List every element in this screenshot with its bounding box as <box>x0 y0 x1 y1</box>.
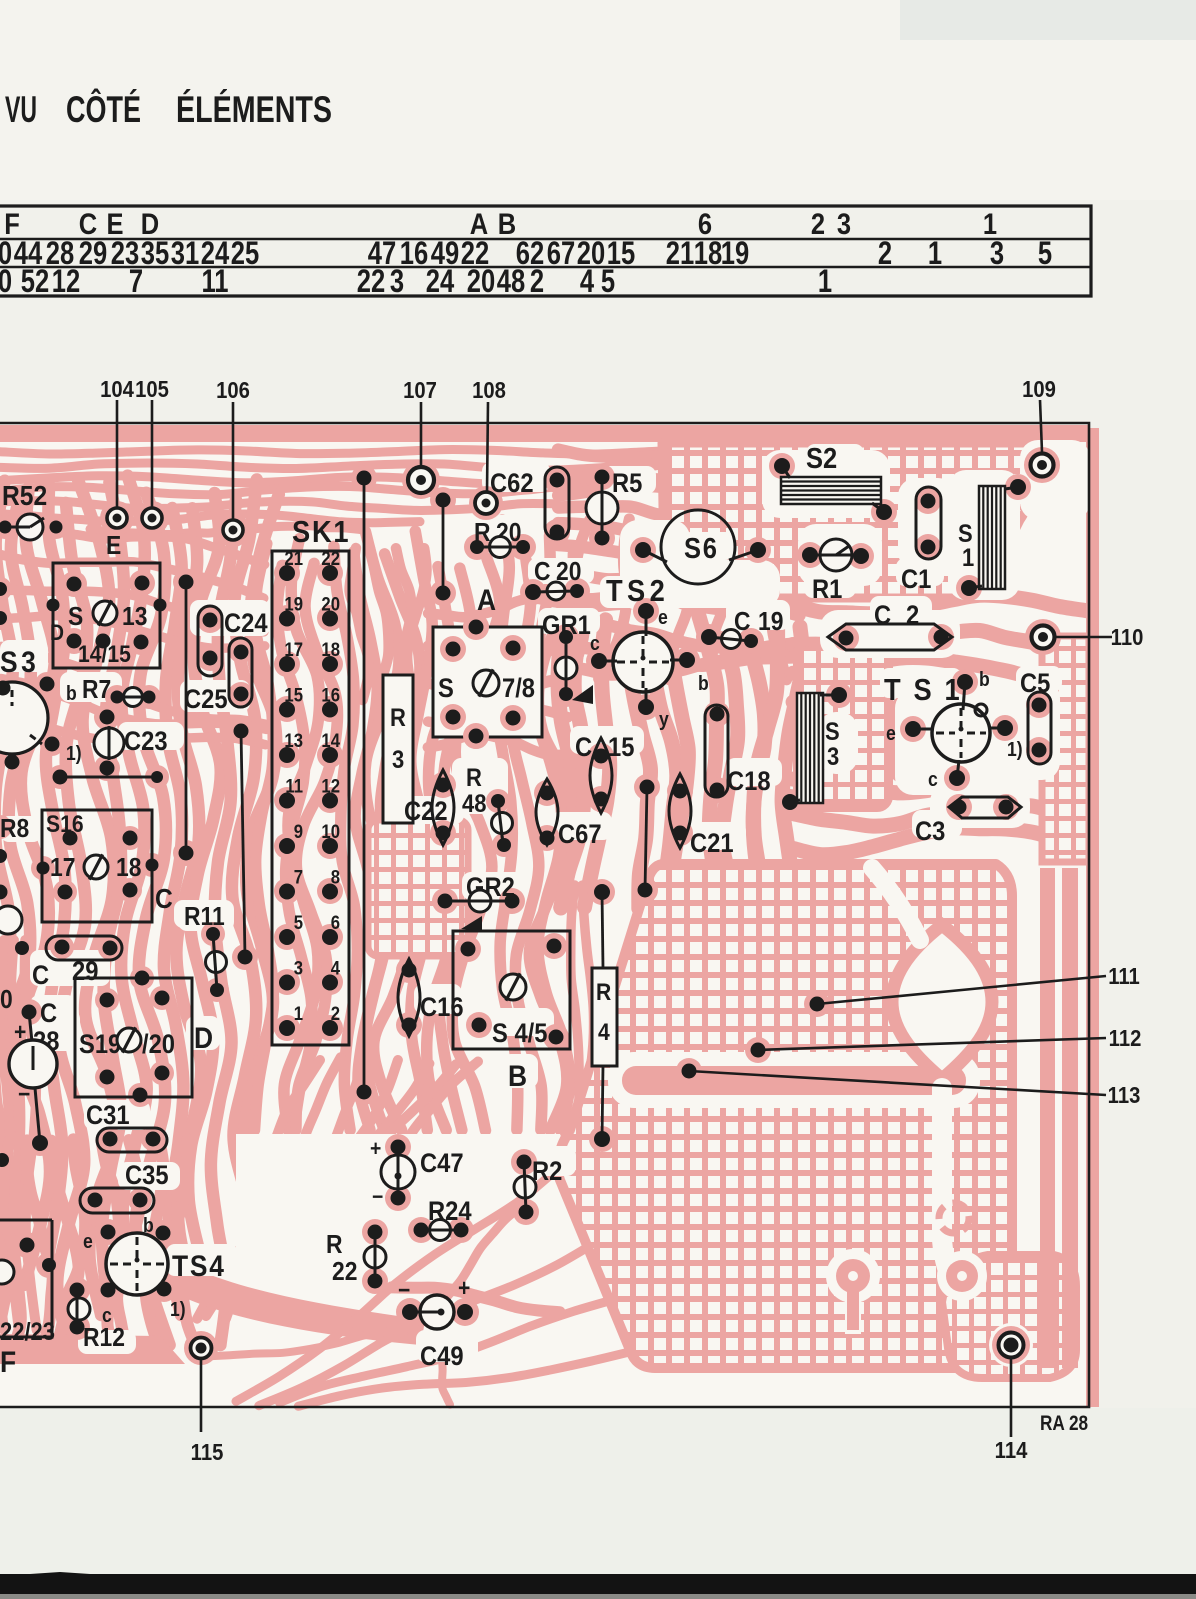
copper trace bundle: centre vertical traces <box>255 544 274 1130</box>
svg-text:C49: C49 <box>420 1342 464 1372</box>
svg-text:12: 12 <box>321 776 340 797</box>
resistor R4 <box>592 884 617 1147</box>
capacitor C24 <box>198 606 268 676</box>
svg-text:4: 4 <box>331 958 340 979</box>
capacitor C62 <box>490 467 569 540</box>
svg-text:A: A <box>477 582 496 616</box>
svg-text:5: 5 <box>294 912 303 933</box>
svg-text:B: B <box>498 207 516 240</box>
svg-text:2: 2 <box>811 207 825 240</box>
pad 105 <box>142 400 162 528</box>
capacitor C28 <box>9 999 59 1151</box>
diode GR1 <box>542 611 593 704</box>
svg-text:b: b <box>143 1214 154 1236</box>
table row 2 numbers <box>0 236 1052 271</box>
capacitor C47 <box>370 1137 464 1209</box>
svg-text:19: 19 <box>284 594 303 615</box>
svg-text:12: 12 <box>52 264 80 299</box>
svg-text:R: R <box>596 979 611 1006</box>
pad 104 <box>107 400 127 528</box>
label A <box>477 582 496 616</box>
keyhole pad in ground plane 2 <box>937 1251 987 1301</box>
capacitor C21 <box>669 774 734 858</box>
capacitor C3 <box>915 797 1021 846</box>
svg-text:2: 2 <box>878 236 892 271</box>
svg-text:0: 0 <box>0 264 12 299</box>
title VU COTE ELEMENTS <box>5 88 332 130</box>
svg-text:1: 1 <box>818 264 832 299</box>
transistor S3 (TS3) <box>0 621 64 770</box>
wire long vertical a <box>179 575 194 861</box>
pad 110 <box>1032 626 1113 649</box>
left edge trace dots <box>0 582 9 1167</box>
wire to SK1 area <box>234 724 253 965</box>
svg-text:c: c <box>590 632 600 654</box>
transistor TS2 <box>590 574 709 730</box>
copper ground plane grid: TS1 surrounding <box>797 642 889 808</box>
connector box D S19/20 <box>75 971 213 1103</box>
PCB board area <box>0 423 1089 1407</box>
svg-text:R2: R2 <box>532 1157 562 1187</box>
svg-text:3: 3 <box>390 264 404 299</box>
svg-text:R11: R11 <box>184 903 225 932</box>
callout label 115 <box>191 1439 224 1466</box>
copper pour: bottom left band <box>0 1334 185 1364</box>
svg-text:105: 105 <box>135 376 169 403</box>
callout label 109 <box>1022 376 1056 403</box>
svg-text:52: 52 <box>21 264 49 299</box>
svg-text:48: 48 <box>462 790 486 818</box>
svg-text:e: e <box>83 1230 93 1252</box>
pad 113 and leader <box>682 1064 1107 1096</box>
white areas around components in grid zones <box>762 450 890 518</box>
capacitor C67 <box>536 779 602 849</box>
svg-text:−: − <box>398 1277 410 1304</box>
capacitor C35 <box>80 1161 169 1213</box>
callout label 113 <box>1108 1082 1141 1109</box>
callout label 105 <box>135 376 169 403</box>
svg-text:R: R <box>390 704 406 732</box>
capacitor C1 <box>901 487 941 594</box>
svg-text:19: 19 <box>721 236 749 271</box>
callout label 114 <box>995 1437 1028 1464</box>
svg-text:1): 1) <box>1007 738 1023 760</box>
callout label 110 <box>1111 624 1144 651</box>
scanner edge shadow <box>0 1574 1196 1594</box>
capacitor C2 <box>828 601 952 650</box>
svg-text:108: 108 <box>472 377 506 404</box>
copper trace bundle: upper middle organic region <box>558 447 800 457</box>
resistor R1 <box>802 539 869 604</box>
svg-text:3: 3 <box>990 236 1004 271</box>
svg-text:10: 10 <box>321 821 340 842</box>
resistor R7 <box>66 676 156 707</box>
white halos under labels <box>0 444 1062 1362</box>
svg-text:29: 29 <box>79 236 107 271</box>
capacitor C15 <box>575 733 634 813</box>
coil S3b <box>782 687 847 810</box>
resistor R3 <box>383 675 413 823</box>
svg-text:11: 11 <box>201 264 228 299</box>
svg-text:11: 11 <box>285 776 303 797</box>
svg-text:104: 104 <box>100 376 134 403</box>
resistor R24 <box>414 1197 472 1241</box>
svg-text:13: 13 <box>284 730 303 751</box>
copper pour: board edge strip right <box>1086 428 1099 1407</box>
svg-text:C16: C16 <box>420 993 464 1023</box>
svg-text:13: 13 <box>122 603 147 632</box>
svg-text:1: 1 <box>294 1003 303 1024</box>
svg-text:R12: R12 <box>83 1324 125 1353</box>
svg-text:22: 22 <box>321 548 340 569</box>
svg-text:CÔTÉ: CÔTÉ <box>66 88 141 130</box>
svg-text:1): 1) <box>66 742 82 764</box>
svg-text:17: 17 <box>284 639 303 660</box>
svg-text:106: 106 <box>216 377 250 404</box>
svg-text:20: 20 <box>321 594 340 615</box>
transistor TS1 <box>884 668 1023 790</box>
svg-text:b: b <box>66 682 77 704</box>
label 0 (C30) <box>0 986 13 1015</box>
svg-text:F: F <box>0 1344 16 1378</box>
svg-text:8: 8 <box>331 867 340 888</box>
svg-text:R7: R7 <box>82 676 111 705</box>
svg-text:R: R <box>466 764 482 792</box>
svg-text:−: − <box>372 1185 383 1209</box>
svg-text:18: 18 <box>321 639 340 660</box>
svg-text:S19: S19 <box>79 1030 121 1060</box>
pad 111 and leader <box>810 976 1107 1012</box>
copper ground plane grid: top right <box>662 443 1034 598</box>
pad 108 <box>475 402 497 514</box>
resistor R2 <box>514 1155 562 1220</box>
svg-text:b: b <box>979 668 990 690</box>
connector box F S22/23 <box>0 1220 56 1378</box>
resistor R52 <box>0 480 63 540</box>
wire long vertical b <box>357 471 372 1100</box>
svg-text:RA 28: RA 28 <box>1040 1413 1088 1436</box>
resistor R12 <box>68 1283 125 1353</box>
svg-text:S 4/5: S 4/5 <box>492 1019 547 1049</box>
svg-text:T S 1: T S 1 <box>884 673 962 707</box>
capacitor C5 <box>1020 669 1051 764</box>
svg-text:25: 25 <box>231 236 259 271</box>
svg-text:C: C <box>32 961 49 991</box>
copper ground plane grid: mid patch left of GR2 <box>368 820 468 956</box>
svg-text:e: e <box>886 722 896 744</box>
svg-text:S3: S3 <box>0 644 39 678</box>
svg-text:S: S <box>438 674 454 704</box>
svg-text:115: 115 <box>191 1439 224 1466</box>
svg-text:21: 21 <box>666 236 694 271</box>
pad 115 <box>191 1338 212 1433</box>
svg-text:2: 2 <box>906 601 919 631</box>
coil S6 <box>635 510 766 584</box>
svg-text:113: 113 <box>1108 1082 1141 1109</box>
table row 1 letters <box>4 207 997 240</box>
svg-text:SK1: SK1 <box>292 515 350 549</box>
svg-text:3: 3 <box>392 746 404 774</box>
svg-text:C23: C23 <box>124 727 168 757</box>
capacitor C18 <box>705 705 771 798</box>
svg-text:+: + <box>370 1137 381 1161</box>
copper trace bundle: left of R4 <box>571 885 580 1135</box>
callout label 106 <box>216 377 250 404</box>
copper trace bundle: left area vertical traces <box>0 481 13 1345</box>
table row 3 numbers <box>0 264 832 299</box>
svg-text:48: 48 <box>497 264 525 299</box>
pad 114 <box>999 1333 1024 1438</box>
resistor R20 <box>470 519 530 558</box>
svg-text:C47: C47 <box>420 1149 464 1179</box>
svg-text:5: 5 <box>601 264 615 299</box>
svg-text:0: 0 <box>0 986 13 1015</box>
svg-text:4: 4 <box>598 1019 610 1046</box>
svg-text:1: 1 <box>928 236 942 271</box>
wire pad pair <box>436 493 451 601</box>
pad 112 and leader <box>751 1038 1107 1058</box>
drawing number RA28 <box>1040 1413 1088 1436</box>
svg-text:+: + <box>458 1275 470 1302</box>
svg-text:20: 20 <box>467 264 495 299</box>
wiring table frame <box>0 206 1091 296</box>
svg-text:22: 22 <box>357 264 385 299</box>
svg-text:6: 6 <box>331 912 340 933</box>
svg-text:E: E <box>106 532 121 561</box>
svg-text:C: C <box>874 601 891 631</box>
capacitor C23 <box>66 710 168 776</box>
svg-text:3: 3 <box>837 207 851 240</box>
svg-text:3: 3 <box>827 743 839 771</box>
callout label 111 <box>1108 963 1140 990</box>
svg-text:15: 15 <box>608 733 634 763</box>
keyhole pad in ground plane 1 <box>826 1249 880 1303</box>
svg-text:C: C <box>534 558 551 587</box>
svg-text:31: 31 <box>171 236 199 271</box>
svg-text:S6: S6 <box>684 531 719 564</box>
bottom right grid patch and pad 114 area <box>942 1255 1076 1378</box>
svg-text:/20: /20 <box>142 1030 175 1060</box>
svg-text:22/23: 22/23 <box>0 1318 55 1346</box>
svg-text:C24: C24 <box>224 609 268 639</box>
svg-text:111: 111 <box>1108 963 1140 990</box>
copper ground plane grid: right strip <box>1042 636 1089 862</box>
black artwork layer <box>0 376 1143 1466</box>
svg-text:C22: C22 <box>404 797 448 827</box>
svg-text:24: 24 <box>426 264 454 299</box>
svg-text:R: R <box>326 1231 343 1260</box>
svg-text:1: 1 <box>962 544 974 572</box>
connector SK1 <box>272 515 350 1045</box>
svg-text:5: 5 <box>1038 236 1052 271</box>
resistor R8 label <box>0 815 29 844</box>
svg-text:R52: R52 <box>2 480 47 512</box>
svg-text:S: S <box>68 603 83 632</box>
svg-text:ÉLÉMENTS: ÉLÉMENTS <box>176 89 332 130</box>
copper trace bundle: right organic region <box>793 595 1086 614</box>
svg-text:110: 110 <box>1111 624 1144 651</box>
svg-text:C21: C21 <box>690 829 734 859</box>
capacitor C20 <box>525 558 584 600</box>
svg-text:D: D <box>50 621 64 645</box>
label E <box>106 532 121 561</box>
svg-text:C35: C35 <box>125 1161 169 1191</box>
callout label 104 <box>100 376 134 403</box>
callout label 112 <box>1109 1025 1142 1052</box>
svg-text:14: 14 <box>321 730 340 751</box>
component at left edge <box>0 885 29 956</box>
svg-text:C62: C62 <box>490 469 534 499</box>
svg-text:VU: VU <box>5 89 37 130</box>
svg-text:109: 109 <box>1022 376 1056 403</box>
svg-text:D: D <box>194 1020 213 1054</box>
svg-text:C: C <box>575 733 592 763</box>
svg-text:C3: C3 <box>915 817 945 847</box>
copper fan traces bottom centre <box>148 1252 425 1345</box>
capacitor C19 <box>701 608 783 649</box>
svg-text:C67: C67 <box>558 820 602 850</box>
wire TS3 emitter <box>53 770 164 785</box>
svg-text:67: 67 <box>547 236 575 271</box>
svg-text:18: 18 <box>694 236 722 271</box>
svg-text:7: 7 <box>294 867 303 888</box>
svg-text:7: 7 <box>129 264 143 299</box>
callout label 107 <box>403 377 437 404</box>
connector box E S13/14/15 <box>47 563 167 668</box>
svg-text:B: B <box>508 1058 527 1092</box>
svg-text:107: 107 <box>403 377 437 404</box>
resistor R5 <box>586 469 642 546</box>
svg-text:S: S <box>825 718 840 746</box>
copper trace bundle: top horizontal lines <box>0 450 790 455</box>
svg-text:7/8: 7/8 <box>502 674 535 704</box>
svg-text:16: 16 <box>321 685 340 706</box>
svg-text:R5: R5 <box>612 469 642 499</box>
svg-text:1): 1) <box>170 1298 186 1320</box>
svg-text:c: c <box>928 768 938 790</box>
pad 106 <box>223 402 243 540</box>
svg-text:114: 114 <box>995 1437 1028 1464</box>
right side vertical stripes <box>1040 868 1055 1368</box>
svg-text:35: 35 <box>141 236 169 271</box>
board outline <box>0 423 1089 1407</box>
box B S4/5 <box>453 931 570 1092</box>
svg-text:22: 22 <box>332 1258 357 1287</box>
capacitor C16 <box>398 959 464 1036</box>
etched white hole (fish shape) <box>892 925 992 1079</box>
svg-text:2: 2 <box>331 1003 340 1024</box>
box A S7/8 <box>433 614 542 749</box>
svg-text:S2: S2 <box>806 441 837 474</box>
capacitor C25 <box>184 638 252 714</box>
coil S1 <box>958 479 1026 596</box>
resistor R22 <box>326 1225 386 1289</box>
svg-text:18: 18 <box>116 854 141 883</box>
svg-text:C: C <box>40 999 57 1029</box>
wire near C18 <box>638 780 655 898</box>
svg-text:C18: C18 <box>727 767 771 797</box>
svg-text:R8: R8 <box>0 815 29 844</box>
svg-text:e: e <box>658 606 668 628</box>
etched white channel with traces through ground plane <box>608 1052 980 1108</box>
pad 109 <box>1031 400 1054 477</box>
svg-text:y: y <box>659 708 669 730</box>
svg-text:9: 9 <box>294 821 303 842</box>
dashed ring mark <box>939 1203 969 1233</box>
transistor TS4 <box>83 1214 226 1326</box>
svg-text:17: 17 <box>50 854 75 883</box>
svg-text:R1: R1 <box>812 575 842 605</box>
resistor R11 <box>184 903 227 997</box>
copper pads under component dots <box>0 447 1061 1365</box>
connector box C S16/17/18 <box>37 810 173 922</box>
svg-text:C31: C31 <box>86 1101 130 1131</box>
svg-text:2: 2 <box>530 264 544 299</box>
svg-text:C: C <box>155 883 173 915</box>
svg-text:TS2: TS2 <box>606 574 669 608</box>
copper ground plane grid: big bottom plane <box>558 864 1012 1368</box>
callout label 108 <box>472 377 506 404</box>
capacitor C29 <box>32 936 122 990</box>
svg-text:C25: C25 <box>184 685 228 715</box>
coil S2 <box>774 441 892 520</box>
capacitor C31 <box>86 1101 167 1152</box>
svg-text:112: 112 <box>1109 1025 1142 1052</box>
svg-text:C1: C1 <box>901 565 931 595</box>
capacitor C22 <box>404 770 454 845</box>
svg-text:4: 4 <box>580 264 594 299</box>
svg-text:3: 3 <box>294 958 303 979</box>
svg-text:−: − <box>18 1081 30 1108</box>
svg-text:19: 19 <box>758 608 783 637</box>
svg-text:TS4: TS4 <box>172 1248 226 1282</box>
pad 107 <box>408 402 434 493</box>
copper pour: top bus band <box>0 425 1089 442</box>
svg-text:b: b <box>698 672 709 694</box>
white channel top of ground plane <box>872 868 920 940</box>
svg-text:14/15: 14/15 <box>78 641 131 668</box>
svg-text:21: 21 <box>284 548 303 569</box>
resistor R48 <box>462 764 513 852</box>
diode GR2 <box>438 873 520 931</box>
capacitor C49 <box>398 1275 473 1372</box>
blank board areas <box>236 1134 648 1404</box>
svg-text:15: 15 <box>284 685 303 706</box>
